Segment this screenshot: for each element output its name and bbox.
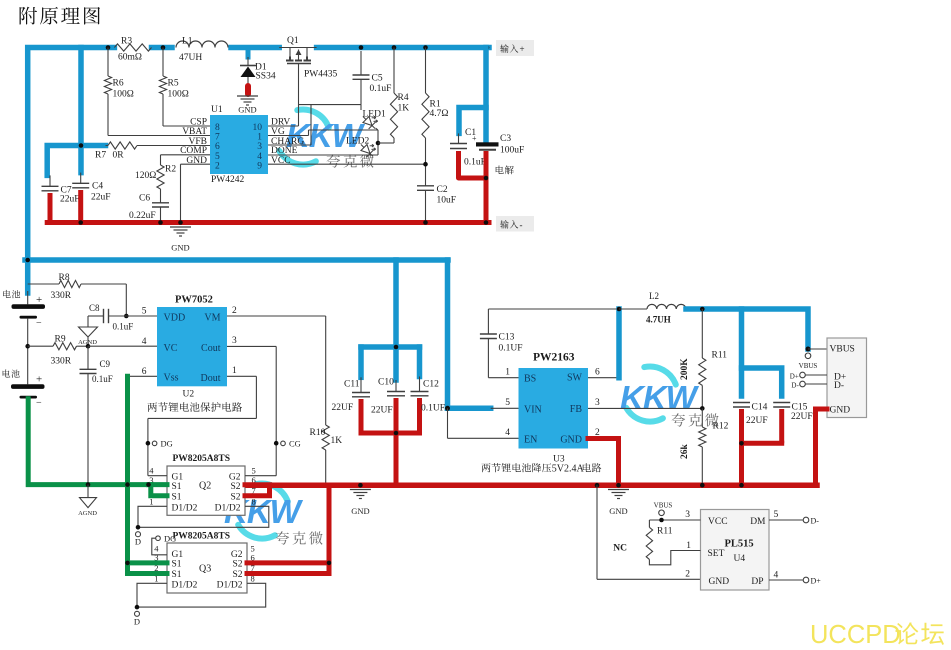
svg-text:GND: GND [830,406,851,416]
wire CHARG [268,144,311,146]
svg-text:22UF: 22UF [332,403,354,413]
svg-text:R11: R11 [657,527,673,537]
svg-text:S1: S1 [172,560,182,570]
svg-text:VCC: VCC [708,517,728,527]
svg-text:Q1: Q1 [287,36,299,46]
watermark KKW 1 [279,110,329,165]
ground GND below rail left [358,483,363,488]
capacitor C13 0.1UF [488,377,518,379]
wire DONE [268,154,378,156]
svg-text:UCCPD: UCCPD [810,621,901,649]
svg-text:6: 6 [142,367,147,377]
svg-text:DG: DG [164,534,176,544]
wire VBAT [108,135,210,137]
svg-text:R12: R12 [713,422,729,432]
svg-text:R5: R5 [168,79,179,89]
wire red bottom rail [248,482,817,488]
svg-text:G1: G1 [172,550,184,560]
wire PL515 GND to rail [595,483,600,488]
svg-text:U1: U1 [211,105,223,115]
label 两节锂电池保护电路 [147,402,242,412]
svg-text:10: 10 [253,123,263,133]
resistor R4 1K [393,48,395,94]
svg-text:Dout: Dout [201,373,221,384]
svg-text:VIN: VIN [524,404,542,415]
svg-text:C8: C8 [89,303,100,313]
svg-text:100Ω: 100Ω [113,90,134,100]
svg-text:VC: VC [164,343,178,354]
svg-text:6: 6 [595,368,600,378]
svg-text:6: 6 [215,142,220,152]
svg-text:D1/D2: D1/D2 [217,581,243,591]
chip U3 PW2163 [519,368,589,449]
capacitor C9 0.1uF [87,346,89,369]
svg-text:2: 2 [685,570,690,580]
svg-text:D-: D- [811,516,820,525]
svg-text:PW8205A8TS: PW8205A8TS [173,532,231,542]
svg-text:100Ω: 100Ω [168,90,189,100]
svg-text:GND: GND [709,577,730,587]
resistor R6 [107,48,109,77]
svg-text:R1: R1 [430,100,441,110]
node CG [274,441,279,446]
wire blue output rail [686,309,808,349]
title 附原理图 [20,7,101,25]
svg-text:NC: NC [613,544,627,554]
wire blue to VIN [445,260,451,408]
watermark KKW 3 [238,484,288,539]
svg-text:PW7052: PW7052 [175,295,213,306]
wire red C14 C15 join [742,441,782,446]
svg-text:R3: R3 [121,37,132,47]
svg-text:2: 2 [215,161,220,171]
capacitor C5 0.1uF [360,51,362,75]
svg-text:G2: G2 [231,550,243,560]
wire COMP to R2 [161,154,211,156]
svg-text:L2: L2 [649,291,659,301]
wire blue capacitor bank feed [393,260,399,380]
svg-text:DM: DM [750,517,766,527]
capacitor C4 [80,173,82,184]
ground GND below red rail left [170,226,191,228]
svg-text:VDD: VDD [164,313,186,324]
svg-text:D-: D- [834,381,844,391]
svg-text:FB: FB [570,404,583,415]
node VBUS terminal [805,353,811,359]
svg-text:0.1uF: 0.1uF [92,374,113,384]
svg-text:C11: C11 [344,380,360,390]
svg-text:EN: EN [524,435,537,446]
wire U1 GND pin2 to ground [181,163,211,165]
svg-text:5: 5 [505,398,510,408]
svg-text:KKW: KKW [620,379,700,416]
node D Q3 [135,605,140,610]
svg-text:S1: S1 [172,482,182,492]
resistor R3 [114,44,151,51]
resistor R2 120ohm [160,155,162,165]
wire red capacitor bank join [361,431,420,436]
wire SW [588,377,619,379]
wire green Q3 S1 [128,560,168,565]
wire Q2 G1 to DG [148,475,167,477]
svg-text:VM: VM [204,312,220,323]
wire EN [447,408,449,438]
svg-text:S2: S2 [232,570,242,580]
svg-text:U2: U2 [183,390,195,400]
svg-text:S2: S2 [230,493,240,503]
svg-text:PL515: PL515 [725,539,754,550]
svg-text:GND: GND [171,243,189,253]
resistor R8 330R [28,283,59,285]
battery B1 电池 [3,290,20,298]
resistor R9 330R [28,345,53,347]
svg-text:9: 9 [257,161,262,171]
capacitor C14 22UF [739,309,745,396]
wire LED junction to R4 [377,130,379,155]
svg-text:26k: 26k [680,444,690,460]
LED1 [360,105,362,110]
svg-text:330R: 330R [51,357,72,367]
svg-text:VBAT: VBAT [182,127,207,137]
wire FB [588,407,702,409]
svg-text:Q2: Q2 [199,481,211,492]
svg-text:4.7UH: 4.7UH [646,315,671,325]
wire green battery negative [28,399,151,485]
capacitor C6 0.22uF [152,202,169,204]
wire R8 to VDD [125,284,127,316]
svg-text:VBUS: VBUS [830,345,855,355]
node D Q2 [136,525,141,530]
chip U2 PW7052 [157,307,227,386]
svg-text:4: 4 [505,428,510,438]
svg-text:C6: C6 [139,194,150,204]
svg-text:G1: G1 [172,473,184,483]
diode D1 SS34 [246,48,251,58]
svg-text:PW8205A8TS: PW8205A8TS [173,454,231,464]
svg-text:R4: R4 [398,93,409,103]
svg-text:5: 5 [142,307,147,317]
svg-text:1: 1 [686,541,691,551]
label input- [496,216,534,232]
svg-text:0.1uF: 0.1uF [464,158,486,168]
svg-text:L1: L1 [182,37,193,47]
svg-text:+: + [520,44,525,54]
svg-text:GND: GND [560,434,582,445]
wire red input- rail [47,220,489,225]
svg-text:0.1UF: 0.1UF [499,344,523,354]
svg-text:22UF: 22UF [791,412,813,422]
svg-text:100uF: 100uF [500,146,524,156]
svg-text:S2: S2 [232,560,242,570]
svg-text:D1/D2: D1/D2 [215,503,241,513]
svg-text:D+: D+ [790,372,799,380]
wire C5 gate net [299,104,362,106]
ground GND below rail right [608,489,629,491]
node D+ terminal [800,372,806,378]
inductor L2 4.7UH [619,308,647,310]
svg-text:AGND: AGND [78,510,97,517]
capacitor C10 22UF [395,380,397,392]
resistor R10 1K [322,425,329,450]
svg-text:R9: R9 [55,335,66,345]
svg-text:1: 1 [505,368,510,378]
resistor R11 200K [701,309,703,358]
svg-text:C9: C9 [100,359,111,369]
svg-text:2: 2 [232,306,237,316]
ground GND below D1 [237,95,258,97]
chip U1 PW4242 [210,115,268,174]
svg-text:C12: C12 [423,380,439,390]
svg-text:C13: C13 [499,333,515,343]
svg-text:R8: R8 [59,273,70,283]
svg-text:3: 3 [595,398,600,408]
capacitor C3 100uF electrolytic [476,142,499,146]
svg-text:5V2.4A: 5V2.4A [552,464,585,475]
resistor R12 26k [701,408,703,427]
svg-text:C14: C14 [752,403,768,413]
wire VCC [649,519,700,521]
svg-text:200K: 200K [680,358,690,380]
wire blue C7/C4 jog [47,146,105,176]
watermark KKW 2 [626,367,676,422]
svg-text:C3: C3 [500,134,511,144]
inductor L1 [176,41,228,48]
svg-text:D1/D2: D1/D2 [172,581,198,591]
svg-text:22UF: 22UF [746,416,768,426]
svg-text:D-: D- [791,381,799,389]
svg-text:D1/D2: D1/D2 [172,503,198,513]
label 电解 [496,166,514,175]
capacitor C7 [49,175,51,186]
svg-text:330R: 330R [51,291,72,301]
wire VG [268,135,309,137]
svg-text:22uF: 22uF [60,195,80,205]
label input+ [496,40,534,56]
resistor R5 [162,48,164,77]
capacitor C1 0.1uF [458,133,460,143]
svg-text:10uF: 10uF [437,196,457,206]
wire Dout to DG [227,375,256,377]
svg-text:60mΩ: 60mΩ [118,53,142,63]
svg-text:120Ω: 120Ω [135,171,156,181]
svg-text:1K: 1K [331,436,343,446]
svg-text:1: 1 [232,366,237,376]
svg-text:U4: U4 [734,554,746,564]
svg-text:D+: D+ [811,576,822,585]
node D- terminal [800,381,806,387]
capacitor C11 22UF [360,377,362,392]
svg-text:-: - [520,220,523,230]
wire CSP [163,125,210,127]
svg-text:S2: S2 [230,482,240,492]
svg-text:+: + [36,374,42,386]
svg-text:5: 5 [774,510,779,520]
svg-text:7: 7 [215,133,220,143]
svg-text:PW4435: PW4435 [304,70,338,80]
svg-text:4: 4 [774,571,779,581]
svg-text:−: − [36,318,42,329]
analog ground AGND1 [87,316,89,327]
svg-text:+: + [472,134,477,143]
wire U3 GND red [588,439,619,486]
svg-text:3: 3 [257,142,262,152]
svg-text:22uF: 22uF [91,193,111,203]
analog ground AGND2 [87,485,89,498]
svg-text:0.22uF: 0.22uF [129,211,156,221]
label 两节锂电池降压5V2.4A电路 [481,463,551,472]
wire Vss green [128,375,158,377]
svg-text:SW: SW [567,373,583,384]
svg-text:VBUS: VBUS [799,362,818,370]
svg-text:0R: 0R [113,151,125,161]
resistor R11 NC [648,520,650,527]
capacitor C15 22UF [742,368,782,396]
svg-text:Vss: Vss [164,373,179,384]
capacitor C8 0.1uF [103,309,105,323]
svg-text:8: 8 [215,123,220,133]
battery B2 电池 [3,369,20,377]
svg-text:4: 4 [142,337,147,347]
wire DP to D+ [769,579,803,581]
svg-text:C4: C4 [92,182,103,192]
svg-text:DP: DP [751,577,763,587]
wire red USB GND [816,409,828,485]
USB connector box [827,338,867,418]
svg-text:GND: GND [351,506,369,516]
svg-text:4.7Ω: 4.7Ω [430,109,449,119]
wire red Q3 S2 [247,560,329,565]
svg-text:22UF: 22UF [371,406,393,416]
svg-text:DG: DG [161,439,173,449]
svg-text:BS: BS [524,374,536,385]
svg-text:SET: SET [708,549,725,559]
svg-text:GND: GND [238,105,256,115]
wire Q2 D1/D2 loop [138,506,269,527]
wire blue top rail input+ [28,48,115,294]
wire blue C1 jog [483,48,489,143]
svg-text:R2: R2 [165,165,176,175]
wire Q3 D1/D2 loop [137,583,266,607]
resistor R7 0R [106,145,109,147]
svg-text:C15: C15 [792,403,808,413]
svg-text:VBUS: VBUS [654,502,673,510]
svg-text:0.1uF: 0.1uF [113,322,134,332]
svg-text:−: − [36,398,42,409]
node dots top rail [79,45,84,50]
svg-text:S1: S1 [172,493,182,503]
svg-text:S1: S1 [172,570,182,580]
resistor R1 4.7ohm [425,48,427,94]
svg-text:D: D [134,617,140,627]
svg-text:LED1: LED1 [363,110,386,120]
svg-text:C10: C10 [378,378,394,388]
svg-text:0.1uF: 0.1uF [370,84,392,94]
wire Q2 G2 to CG [245,475,276,477]
svg-text:GND: GND [609,506,627,516]
capacitor C12 0.1UF [419,377,421,392]
svg-text:47UH: 47UH [179,53,202,63]
svg-text:C2: C2 [437,185,448,195]
svg-text:Cout: Cout [201,343,221,354]
wire DM to D- [769,519,803,521]
svg-text:C5: C5 [372,74,383,84]
svg-text:3: 3 [232,336,237,346]
svg-text:G2: G2 [229,473,241,483]
svg-text:3: 3 [685,510,690,520]
node VBUS terminal U4 [659,510,665,516]
wire VCC [268,163,426,165]
wire blue middle rail [25,257,448,263]
svg-text:+: + [36,294,42,306]
wire green Q2 S1 [149,482,168,487]
wire red Q2 S2 to rail [245,482,270,487]
svg-text:R7: R7 [95,151,106,161]
svg-text:0.1UF: 0.1UF [421,404,445,414]
svg-text:1: 1 [257,133,262,143]
LED2 [358,139,379,160]
chip U4 PL515 box [701,510,770,591]
svg-text:R6: R6 [113,79,124,89]
wire VC [88,345,157,347]
wire VM to R10 [227,315,326,317]
svg-text:SS34: SS34 [256,72,276,82]
svg-text:PW4242: PW4242 [211,175,245,185]
svg-text:R10: R10 [310,428,326,438]
node DG Q3 [156,536,161,541]
svg-text:1K: 1K [398,104,410,114]
svg-text:R11: R11 [712,351,728,361]
wire DRV to Q1 gate [268,125,299,127]
transistor Q1 PW4435 [279,47,316,49]
capacitor C2 10uF [417,185,434,187]
svg-text:D: D [135,537,141,547]
svg-text:CG: CG [289,439,301,449]
svg-text:PW2163: PW2163 [533,352,575,364]
node DG [146,441,151,446]
svg-text:LED2: LED2 [346,137,369,147]
wire Cout to CG [227,345,276,347]
svg-text:Q3: Q3 [199,564,211,575]
